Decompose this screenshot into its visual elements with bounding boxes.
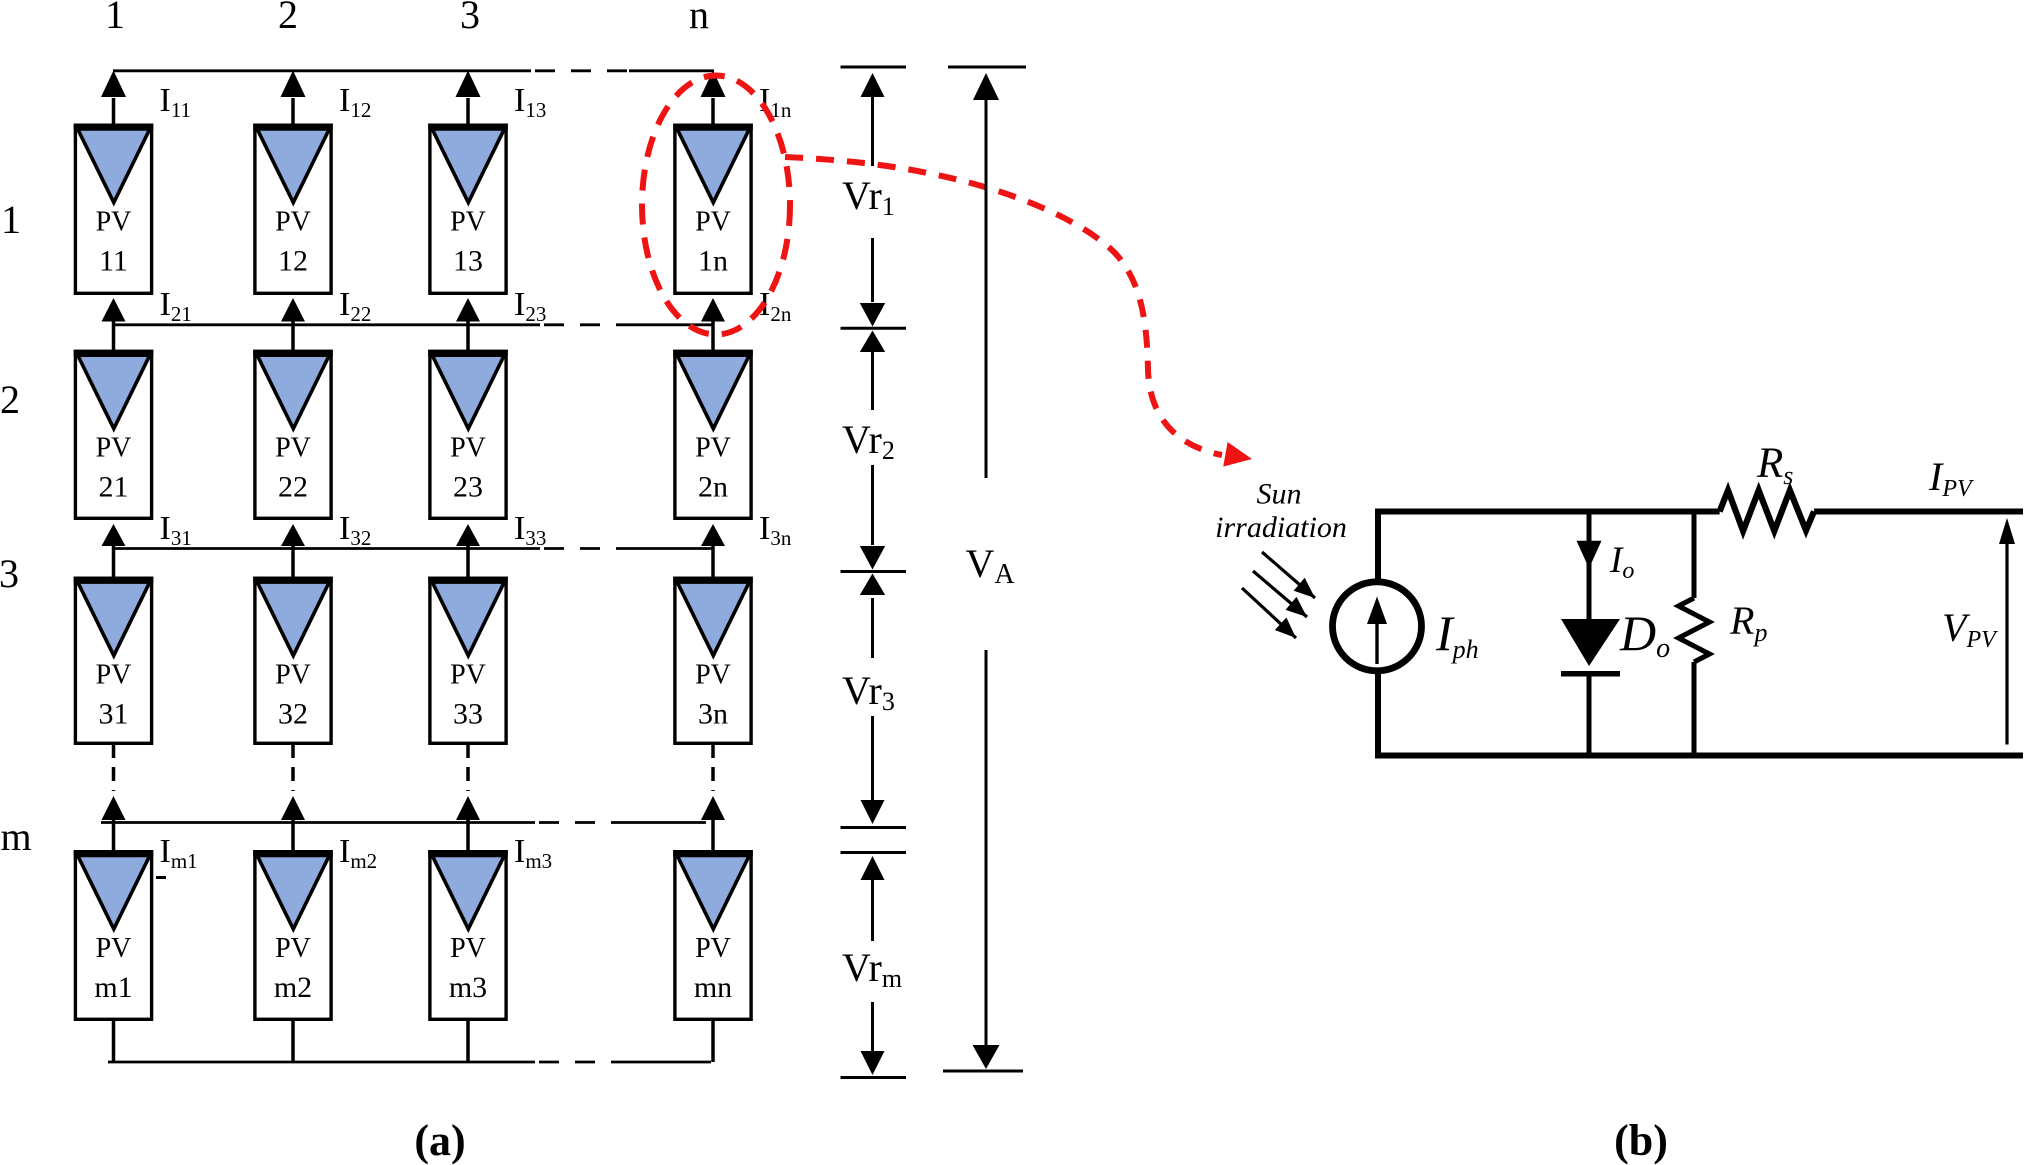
svg-text:(a): (a) xyxy=(414,1116,465,1165)
svg-text:21: 21 xyxy=(99,471,129,504)
svg-text:PV: PV xyxy=(96,660,132,691)
svg-text:PV: PV xyxy=(96,207,132,238)
svg-text:11: 11 xyxy=(99,245,128,278)
svg-text:2n: 2n xyxy=(698,471,728,504)
svg-text:2: 2 xyxy=(0,377,20,422)
svg-text:PV: PV xyxy=(450,433,486,464)
svg-text:mn: mn xyxy=(694,971,732,1004)
svg-text:3: 3 xyxy=(460,0,480,37)
svg-text:31: 31 xyxy=(99,698,129,731)
svg-text:irradiation: irradiation xyxy=(1215,511,1347,544)
svg-text:3n: 3n xyxy=(698,698,728,731)
svg-text:m2: m2 xyxy=(274,971,312,1004)
svg-text:PV: PV xyxy=(275,207,311,238)
svg-text:32: 32 xyxy=(278,698,308,731)
svg-text:13: 13 xyxy=(453,245,483,278)
svg-text:1n: 1n xyxy=(698,245,728,278)
svg-text:n: n xyxy=(689,0,709,37)
svg-text:22: 22 xyxy=(278,471,308,504)
svg-text:PV: PV xyxy=(96,933,132,964)
svg-text:PV: PV xyxy=(275,660,311,691)
svg-text:Sun: Sun xyxy=(1257,478,1302,511)
svg-text:PV: PV xyxy=(695,433,731,464)
svg-text:PV: PV xyxy=(275,933,311,964)
svg-text:33: 33 xyxy=(453,698,483,731)
svg-text:12: 12 xyxy=(278,245,308,278)
svg-text:(b): (b) xyxy=(1614,1116,1668,1165)
svg-text:23: 23 xyxy=(453,471,483,504)
svg-text:m: m xyxy=(0,814,31,859)
svg-text:PV: PV xyxy=(450,207,486,238)
svg-text:1: 1 xyxy=(1,197,21,242)
svg-text:PV: PV xyxy=(695,207,731,238)
svg-text:PV: PV xyxy=(96,433,132,464)
svg-text:m3: m3 xyxy=(449,971,487,1004)
svg-text:PV: PV xyxy=(275,433,311,464)
svg-text:PV: PV xyxy=(695,933,731,964)
svg-text:PV: PV xyxy=(695,660,731,691)
svg-text:PV: PV xyxy=(450,660,486,691)
svg-text:3: 3 xyxy=(0,551,19,596)
svg-text:2: 2 xyxy=(278,0,298,37)
svg-text:1: 1 xyxy=(105,0,125,37)
svg-text:PV: PV xyxy=(450,933,486,964)
svg-text:m1: m1 xyxy=(94,971,132,1004)
